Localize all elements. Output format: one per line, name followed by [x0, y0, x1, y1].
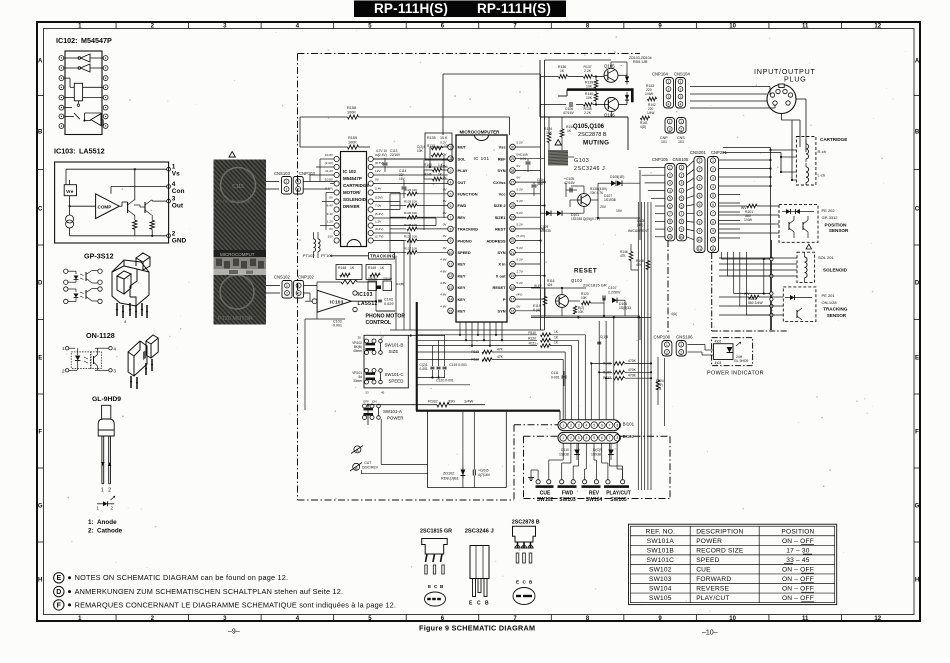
- svg-text:REMARQUES CONCERNANT LE DIAGRA: REMARQUES CONCERNANT LE DIAGRAMME SCHEMA…: [75, 600, 397, 609]
- svg-text:ON – OFF: ON – OFF: [782, 567, 814, 574]
- svg-text:SENSOR: SENSOR: [827, 313, 847, 318]
- svg-text:SW101B: SW101B: [647, 547, 675, 554]
- svg-text:6: 6: [681, 204, 683, 208]
- svg-text:10K 4.7K: 10K 4.7K: [590, 191, 604, 195]
- svg-text:CNP106: CNP106: [654, 335, 671, 340]
- svg-text:9: 9: [699, 229, 701, 233]
- svg-text:Q105: Q105: [604, 64, 615, 69]
- svg-text:R4(B): R4(B): [396, 282, 404, 286]
- svg-text:R109: R109: [603, 370, 611, 374]
- svg-text:SW101-B: SW101-B: [385, 343, 404, 348]
- svg-text:5: 5: [681, 197, 683, 201]
- svg-text:R127 10K: R127 10K: [404, 246, 417, 250]
- svg-text:X in: X in: [498, 262, 506, 267]
- svg-text:1S938: 1S938: [559, 453, 569, 457]
- svg-text:REV: REV: [458, 215, 466, 220]
- svg-text:1K: 1K: [560, 69, 565, 73]
- svg-text:R149: R149: [368, 266, 376, 270]
- svg-text:1: 1: [101, 488, 104, 494]
- svg-text:26: 26: [511, 192, 515, 196]
- svg-text:33mm: 33mm: [353, 379, 362, 383]
- svg-text:470K: 470K: [628, 359, 637, 363]
- svg-text:SIZE1: SIZE1: [495, 215, 507, 220]
- svg-text:R146: R146: [424, 173, 432, 177]
- svg-text:F: F: [38, 429, 42, 435]
- svg-text:4.8V: 4.8V: [440, 258, 447, 262]
- svg-text:KEY: KEY: [458, 262, 466, 267]
- svg-text:C102: C102: [384, 298, 393, 302]
- svg-text:5: 5: [450, 192, 452, 196]
- svg-text:NOTES ON SCHEMATIC DIAGRAM can: NOTES ON SCHEMATIC DIAGRAM can be found …: [75, 573, 289, 582]
- svg-text:RESET: RESET: [574, 268, 597, 275]
- svg-text:X out: X out: [496, 273, 506, 278]
- svg-text:TRACKING: TRACKING: [370, 254, 395, 259]
- svg-text:47K: 47K: [620, 254, 627, 258]
- svg-text:2: 2: [286, 180, 288, 184]
- svg-text:4: 4: [668, 102, 670, 106]
- svg-text:28: 28: [511, 169, 515, 173]
- svg-text:CUT: CUT: [364, 461, 371, 465]
- svg-text:Figure 9 SCHEMATIC DIAGRAM: Figure 9 SCHEMATIC DIAGRAM: [419, 624, 535, 633]
- svg-text:8: 8: [712, 220, 714, 224]
- svg-text:1.2V: 1.2V: [375, 219, 382, 223]
- svg-text:30: 30: [511, 146, 515, 150]
- svg-text:101: 101: [678, 140, 684, 144]
- svg-text:19: 19: [511, 274, 515, 278]
- svg-text:22/16V: 22/16V: [390, 153, 401, 157]
- svg-text:1: 1: [562, 436, 564, 440]
- svg-text:11: 11: [449, 263, 453, 267]
- svg-text:IC 101: IC 101: [474, 156, 490, 161]
- svg-text:9: 9: [450, 239, 452, 243]
- svg-text:DISC/REV: DISC/REV: [362, 466, 379, 470]
- svg-text:RESET: RESET: [493, 285, 507, 290]
- svg-text:1S1938 Q(05)(0.7V): 1S1938 Q(05)(0.7V): [571, 217, 600, 221]
- svg-text:SOL: SOL: [458, 156, 467, 161]
- svg-text:4)02: 4)02: [715, 340, 722, 344]
- svg-text:–10–: –10–: [702, 630, 718, 637]
- svg-text:1: 1: [298, 284, 300, 288]
- svg-text:4: 4: [669, 189, 671, 193]
- svg-text:1/4W: 1/4W: [744, 218, 753, 222]
- svg-text:2SC2878 B: 2SC2878 B: [512, 520, 540, 526]
- svg-text:17 – 30: 17 – 30: [786, 547, 810, 554]
- svg-text:4(7)16V: 4(7)16V: [478, 473, 491, 477]
- svg-text:5: 5: [593, 424, 595, 428]
- svg-text:4: 4: [699, 185, 701, 189]
- svg-text:D: D: [38, 280, 43, 286]
- svg-text:5.2V: 5.2V: [517, 187, 524, 191]
- svg-text:2SC3246 J: 2SC3246 J: [465, 529, 494, 535]
- svg-text:2:: 2:: [88, 528, 94, 535]
- svg-text:CNS105: CNS105: [673, 157, 689, 162]
- svg-text:SPEED: SPEED: [458, 250, 471, 255]
- svg-text:8: 8: [617, 424, 619, 428]
- svg-text:(10V): (10V): [375, 195, 383, 199]
- svg-text:(B)K: (B)K: [537, 182, 544, 186]
- svg-text:IC103: IC103: [330, 300, 344, 305]
- svg-text:7.0V: 7.0V: [375, 203, 382, 207]
- svg-text:7: 7: [669, 212, 671, 216]
- svg-text:7: 7: [699, 212, 701, 216]
- svg-text:SW103: SW103: [559, 497, 576, 503]
- svg-text:SW101-A: SW101-A: [383, 409, 402, 414]
- svg-text:5.2V: 5.2V: [517, 211, 524, 215]
- svg-text:2SC2878 B: 2SC2878 B: [578, 132, 607, 138]
- svg-text:4(D): 4(D): [640, 125, 646, 129]
- svg-text:LA5512: LA5512: [79, 147, 105, 156]
- svg-text:(1E): (1E): [618, 175, 624, 179]
- svg-text:SW102: SW102: [537, 497, 554, 503]
- svg-text:47K: 47K: [497, 348, 504, 352]
- svg-text:(2.7V): (2.7V): [375, 234, 383, 238]
- svg-text:POWER: POWER: [387, 416, 404, 421]
- svg-text:4: 4: [586, 436, 588, 440]
- svg-text:10K: 10K: [581, 296, 588, 300]
- svg-text:PLAY: PLAY: [458, 168, 468, 173]
- svg-text:1: 1: [286, 187, 288, 191]
- svg-text:IC103: IC103: [358, 292, 373, 298]
- svg-text:1S1938: 1S1938: [604, 198, 616, 202]
- svg-text:2: 2: [297, 180, 299, 184]
- svg-text:REV: REV: [589, 491, 600, 497]
- svg-text:P120 MOTOR: P120 MOTOR: [218, 316, 253, 322]
- svg-text:SW101A: SW101A: [647, 538, 675, 545]
- svg-text:ON – OFF: ON – OFF: [782, 595, 814, 602]
- svg-text:2: 2: [570, 436, 572, 440]
- svg-text:E: E: [428, 584, 431, 589]
- svg-text:FUNCTION: FUNCTION: [458, 192, 478, 197]
- svg-text:2: 2: [699, 168, 701, 172]
- svg-text:ON-1/28: ON-1/28: [822, 300, 838, 305]
- svg-text:4: 4: [680, 102, 682, 106]
- svg-text:18: 18: [511, 286, 515, 290]
- svg-text:CXVss: CXVss: [493, 180, 505, 185]
- svg-text:R159: R159: [348, 136, 357, 140]
- svg-text:CNP104: CNP104: [652, 72, 668, 77]
- svg-text:8.4V: 8.4V: [327, 203, 334, 207]
- svg-text:5.2V: 5.2V: [517, 199, 524, 203]
- svg-text:4)03: 4)03: [715, 361, 722, 365]
- svg-text:Anode: Anode: [97, 519, 117, 526]
- svg-text:29: 29: [511, 157, 515, 161]
- svg-text:3: 3: [680, 95, 682, 99]
- svg-text:R128 105: R128 105: [404, 223, 417, 227]
- svg-text:ANMERKUNGEN ZUM SCHEMATISCHEN: ANMERKUNGEN ZUM SCHEMATISCHEN SCHALTPLAN…: [75, 587, 344, 596]
- svg-text:SW101-C: SW101-C: [385, 372, 404, 377]
- svg-text:2: 2: [450, 157, 452, 161]
- svg-text:100K: 100K: [347, 111, 356, 115]
- svg-text:11.2V: 11.2V: [325, 169, 334, 173]
- svg-text:10: 10: [729, 23, 736, 29]
- svg-text:–9–: –9–: [228, 629, 240, 636]
- svg-text:SENSOR: SENSOR: [829, 228, 849, 233]
- svg-text:RP-111H(S): RP-111H(S): [477, 1, 551, 16]
- svg-text:1: 1: [680, 343, 682, 347]
- svg-text:424: 424: [547, 283, 553, 287]
- svg-text:FORWARD: FORWARD: [696, 576, 731, 583]
- svg-text:SYN: SYN: [498, 309, 506, 314]
- svg-text:D: D: [915, 280, 920, 286]
- svg-text:D(C)9: D(C)9: [593, 448, 602, 452]
- svg-text:4.8V: 4.8V: [440, 269, 447, 273]
- svg-text:2SC1815 GR: 2SC1815 GR: [583, 283, 607, 288]
- svg-text:470K: 470K: [628, 374, 637, 378]
- svg-text:13: 13: [449, 286, 453, 290]
- svg-text:Con: Con: [172, 188, 185, 195]
- svg-text:1: 1: [668, 80, 670, 84]
- svg-text:BY RPM MOTOR: BY RPM MOTOR: [216, 199, 252, 204]
- svg-text:E: E: [915, 355, 919, 361]
- svg-text:REF. NO.: REF. NO.: [646, 528, 675, 535]
- svg-text:3: 3: [681, 181, 683, 185]
- svg-text:R135: R135: [427, 136, 436, 140]
- svg-text:0.029: 0.029: [384, 302, 394, 306]
- svg-text:5.2V: 5.2V: [517, 246, 524, 250]
- svg-text:(5.2V): (5.2V): [517, 234, 525, 238]
- svg-text:LA5512: LA5512: [358, 301, 378, 307]
- svg-text:12V: 12V: [375, 169, 381, 173]
- svg-text:CARTRIDGE: CARTRIDGE: [343, 183, 369, 188]
- svg-text:C111: C111: [551, 371, 559, 375]
- svg-text:C: C: [477, 601, 481, 607]
- svg-text:5.2V: 5.2V: [517, 281, 524, 285]
- svg-text:KEY: KEY: [458, 273, 466, 278]
- svg-text:4: 4: [712, 185, 714, 189]
- svg-text:(1.5V): (1.5V): [325, 186, 333, 190]
- svg-text:3: 3: [699, 176, 701, 180]
- svg-text:16V: 16V: [399, 177, 406, 181]
- svg-text:0-001: 0-001: [420, 367, 428, 371]
- svg-text:Q105,Q106: Q105,Q106: [573, 124, 605, 130]
- svg-text:RD5.1JB: RD5.1JB: [633, 60, 648, 64]
- svg-text:FWD: FWD: [562, 491, 574, 497]
- svg-text:KEY: KEY: [458, 297, 466, 302]
- svg-text:4: 4: [681, 189, 683, 193]
- svg-text:3: 3: [578, 436, 580, 440]
- svg-text:ON – OFF: ON – OFF: [782, 586, 814, 593]
- svg-text:COMP: COMP: [98, 204, 112, 209]
- svg-text:2: 2: [681, 174, 683, 178]
- svg-text:1: 1: [669, 120, 671, 124]
- svg-text:OUT: OUT: [458, 180, 467, 185]
- svg-text:8: 8: [617, 436, 619, 440]
- svg-text:1: 1: [680, 120, 682, 124]
- svg-text:2: 2: [680, 350, 682, 354]
- svg-text:SW104: SW104: [586, 497, 603, 503]
- svg-text:33: 33: [365, 391, 369, 395]
- svg-text:(5.2V): (5.2V): [375, 212, 383, 216]
- svg-text:100K: 100K: [348, 141, 357, 145]
- svg-text:15: 15: [449, 309, 453, 313]
- svg-text:45: 45: [381, 391, 385, 395]
- svg-text:10K: 10K: [578, 310, 585, 314]
- svg-text:R111: R111: [529, 342, 537, 346]
- svg-text:R120: R120: [528, 336, 536, 340]
- svg-text:2: 2: [298, 291, 300, 295]
- svg-text:C120 0-001: C120 0-001: [436, 379, 454, 383]
- svg-text:PE 201: PE 201: [822, 293, 836, 298]
- svg-text:POWER INDICATOR: POWER INDICATOR: [707, 371, 764, 377]
- svg-text:7: 7: [609, 436, 611, 440]
- svg-text:9: 9: [681, 227, 683, 231]
- svg-text:R117: R117: [603, 376, 611, 380]
- svg-text:Vss: Vss: [499, 145, 506, 150]
- svg-text:SW105: SW105: [610, 497, 627, 503]
- svg-text:SW102: SW102: [649, 567, 672, 574]
- svg-text:SOL 201: SOL 201: [818, 255, 834, 260]
- svg-text:C119 0-001: C119 0-001: [449, 363, 467, 367]
- svg-text:SYN: SYN: [498, 168, 506, 173]
- svg-text:A: A: [38, 58, 43, 64]
- svg-text:5.4V: 5.4V: [375, 186, 382, 190]
- svg-text:20: 20: [511, 263, 515, 267]
- svg-text:R126 10K: R126 10K: [404, 188, 417, 192]
- svg-text:1: 1: [699, 159, 701, 163]
- svg-text:CNS104: CNS104: [674, 72, 690, 77]
- svg-text:(8.7V): (8.7V): [375, 161, 383, 165]
- svg-text:2: 2: [286, 291, 288, 295]
- svg-text:6: 6: [712, 203, 714, 207]
- svg-text:4: 4: [586, 424, 588, 428]
- svg-text:2: 2: [680, 87, 682, 91]
- svg-text:IC103:: IC103:: [54, 147, 76, 156]
- svg-text:2: 2: [680, 127, 682, 131]
- svg-text:0.001: 0.001: [333, 324, 342, 328]
- svg-text:14: 14: [449, 298, 453, 302]
- svg-text:2: 2: [669, 127, 671, 131]
- svg-text:3: 3: [669, 181, 671, 185]
- svg-text:SW(B): SW(B): [368, 277, 377, 281]
- svg-text:P: P: [503, 297, 506, 302]
- svg-text:0-001: 0-001: [551, 376, 560, 380]
- svg-text:2SC1815 GR: 2SC1815 GR: [420, 529, 452, 535]
- svg-text:1: 1: [681, 166, 683, 170]
- svg-text:5: 5: [699, 194, 701, 198]
- svg-text:B: B: [38, 129, 43, 135]
- svg-text:560 1/4W: 560 1/4W: [748, 301, 763, 305]
- svg-text:2.2K: 2.2K: [584, 69, 592, 73]
- svg-text:4.8V: 4.8V: [440, 293, 447, 297]
- svg-text:0.01: 0.01: [520, 157, 526, 161]
- svg-text:2: 2: [666, 350, 668, 354]
- svg-text:1/4W: 1/4W: [647, 111, 654, 115]
- svg-text:5: 5: [593, 436, 595, 440]
- svg-text:CNS201: CNS201: [690, 150, 706, 155]
- svg-text:SW105: SW105: [649, 595, 672, 602]
- svg-text:10: 10: [729, 616, 736, 622]
- svg-text:R129 10K: R129 10K: [404, 200, 417, 204]
- svg-text:BI101: BI101: [623, 421, 635, 426]
- svg-text:9.4V: 9.4V: [327, 212, 334, 216]
- svg-text:1: 1: [666, 343, 668, 347]
- svg-text:H: H: [915, 577, 919, 583]
- svg-text:1: 1: [297, 187, 299, 191]
- svg-text:11: 11: [698, 247, 702, 251]
- svg-text:ADDRESS: ADDRESS: [486, 238, 505, 243]
- svg-text:47/16V: 47/16V: [563, 111, 574, 115]
- svg-text:SW(A): SW(A): [383, 277, 392, 281]
- svg-text:BI102: BI102: [623, 434, 635, 439]
- svg-text:MUTING: MUTING: [583, 140, 609, 147]
- svg-text:KEY: KEY: [458, 285, 466, 290]
- svg-text:R158: R158: [347, 106, 356, 110]
- svg-text:9: 9: [669, 227, 671, 231]
- svg-text:11: 11: [802, 23, 809, 29]
- svg-text:23: 23: [511, 227, 515, 231]
- svg-text:Q102: Q102: [571, 278, 583, 283]
- svg-text:G103: G103: [574, 158, 589, 164]
- svg-text:390: 390: [448, 399, 455, 404]
- svg-text:2.2/50V: 2.2/50V: [608, 291, 621, 295]
- svg-text:ON – OFF: ON – OFF: [782, 576, 814, 583]
- svg-text:5: 5: [669, 197, 671, 201]
- svg-text:ZD102: ZD102: [443, 472, 454, 476]
- svg-text:1: 1: [680, 80, 682, 84]
- svg-text:10.8V: 10.8V: [325, 153, 334, 157]
- svg-text:IC102:: IC102:: [56, 36, 78, 45]
- svg-text:C115: C115: [232, 184, 244, 190]
- svg-text:101: 101: [661, 140, 667, 144]
- svg-text:11: 11: [711, 247, 715, 251]
- svg-text:C: C: [38, 206, 43, 212]
- svg-text:4: 4: [450, 181, 452, 185]
- svg-text:ON – OFF: ON – OFF: [782, 538, 814, 545]
- svg-text:10 K: 10 K: [440, 136, 448, 140]
- svg-text:E: E: [516, 580, 519, 585]
- svg-text:C: C: [915, 206, 920, 212]
- svg-text:SPEED: SPEED: [389, 379, 404, 384]
- svg-text:(2.4V): (2.4V): [325, 161, 333, 165]
- svg-text:REF: REF: [498, 156, 506, 161]
- svg-text:10: 10: [698, 238, 702, 242]
- svg-text:8: 8: [450, 227, 452, 231]
- svg-text:CNP102: CNP102: [298, 275, 314, 280]
- svg-text:4)0(: 4)0(: [671, 312, 678, 316]
- svg-text:40mm: 40mm: [353, 349, 362, 353]
- svg-text:CONTROL: CONTROL: [366, 320, 392, 326]
- svg-text:+C(6)5: +C(6)5: [478, 469, 489, 473]
- svg-text:GL-9HD9: GL-9HD9: [92, 396, 121, 403]
- svg-text:10K: 10K: [444, 144, 451, 148]
- svg-text:12: 12: [449, 274, 453, 278]
- svg-text:2: 2: [712, 168, 714, 172]
- svg-text:2: 2: [570, 424, 572, 428]
- svg-text:47K: 47K: [497, 355, 504, 359]
- svg-text:Vre: Vre: [66, 189, 74, 195]
- svg-text:7: 7: [450, 216, 452, 220]
- svg-text:6: 6: [601, 436, 603, 440]
- svg-text:10: 10: [711, 238, 715, 242]
- svg-text:IC 102: IC 102: [343, 169, 356, 174]
- svg-text:PLAY/CUT: PLAY/CUT: [606, 491, 631, 497]
- svg-text:20V: 20V: [600, 205, 607, 209]
- svg-text:5: 5: [712, 194, 714, 198]
- svg-text:GND: GND: [172, 237, 187, 244]
- svg-text:Cathode: Cathode: [97, 528, 123, 535]
- svg-text:1/4W: 1/4W: [645, 92, 654, 96]
- svg-text:33 – 45: 33 – 45: [786, 557, 810, 564]
- svg-text:4.8V: 4.8V: [440, 281, 447, 285]
- svg-text:27: 27: [511, 181, 515, 185]
- svg-text:D105: D105: [610, 175, 618, 179]
- svg-text:MICROCOMPUT: MICROCOMPUT: [220, 252, 255, 257]
- svg-text:FWD: FWD: [458, 203, 467, 208]
- svg-text:E: E: [56, 575, 61, 582]
- svg-text:D110: D110: [561, 448, 569, 452]
- svg-text:5.2V: 5.2V: [517, 258, 524, 262]
- svg-text:470K: 470K: [628, 368, 637, 372]
